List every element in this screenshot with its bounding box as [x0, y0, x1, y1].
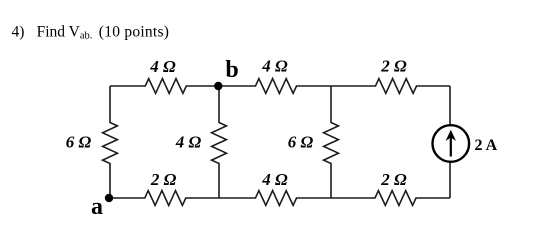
resistor 4ohm top-middle	[218, 79, 331, 94]
node b dot	[214, 82, 222, 90]
resistor 6ohm left vertical	[103, 86, 118, 198]
wire right side top segment	[449, 86, 451, 125]
node a dot	[105, 194, 113, 202]
svg-text:4 Ω: 4 Ω	[175, 133, 202, 152]
svg-text:a: a	[91, 194, 103, 220]
svg-text:2 Ω: 2 Ω	[150, 170, 177, 189]
resistor 4ohm top-left	[110, 79, 218, 94]
resistor 2ohm bottom-left	[109, 191, 219, 206]
svg-text:b: b	[225, 57, 238, 83]
resistor 4ohm bottom-middle	[219, 191, 331, 206]
current source circle	[433, 125, 470, 162]
resistor 4ohm middle vertical	[212, 86, 227, 198]
resistor 2ohm top-right	[331, 79, 450, 94]
svg-text:4 Ω: 4 Ω	[149, 57, 176, 76]
svg-text:2 Ω: 2 Ω	[380, 57, 407, 76]
resistor 6ohm right-middle vertical	[324, 86, 339, 198]
svg-text:4 Ω: 4 Ω	[261, 57, 288, 76]
resistor 2ohm bottom-right	[331, 191, 450, 206]
svg-text:6 Ω: 6 Ω	[288, 133, 314, 152]
svg-text:2 Ω: 2 Ω	[380, 170, 407, 189]
wire right side bottom segment	[449, 162, 451, 198]
current source arrowhead	[446, 130, 456, 141]
current source arrow shaft	[450, 134, 452, 157]
svg-text:4 Ω: 4 Ω	[261, 170, 288, 189]
svg-text:2 A: 2 A	[475, 137, 498, 154]
svg-text:6 Ω: 6 Ω	[66, 133, 92, 152]
